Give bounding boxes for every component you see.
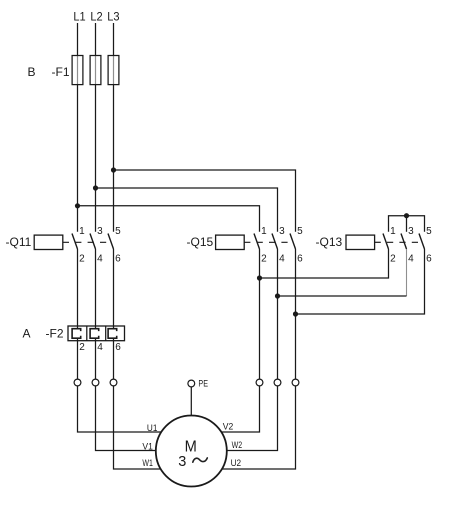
svg-text:2: 2 [390,253,396,264]
wire to motor V2 [221,386,259,432]
contactor Q15 coil box [216,235,245,249]
contactor Q13 coil box [346,235,375,249]
contactor Q15 mechanical linkage [244,241,293,243]
svg-text:B: B [28,65,36,79]
terminal on Q15 pin 6 [292,379,299,386]
overload relay F2 heater element 1 [72,329,81,339]
wire Q11 pin 4 to F2 [95,249,97,329]
svg-text:4: 4 [408,253,414,264]
svg-text:-Q11: -Q11 [6,235,32,249]
wire F2 pin 6 to terminal [113,338,115,379]
wire L2 to fuse F1 [95,23,97,56]
node L1 tap [75,203,80,208]
wire Q15 pin 4 down [277,249,279,379]
wire L3 tap to Q15 pin 5 [114,170,296,232]
svg-text:4: 4 [97,253,103,264]
svg-text:-F1: -F1 [52,65,70,79]
svg-text:PE: PE [198,378,208,388]
contactor Q11 coil box [34,235,63,249]
wire F2 pin 4 to terminal [95,338,97,379]
wire L3 to fuse F1 [113,23,115,56]
svg-text:M: M [185,439,197,456]
wire Q11 pin 6 to F2 [113,249,115,329]
overload relay F2 heater element 3 [108,329,117,339]
node L3 tap [111,167,116,172]
wire fuse F1 pole 3 to Q11 [113,85,115,232]
svg-text:5: 5 [426,226,432,237]
wire to motor W1 [114,386,161,469]
wire to motor U2 [222,386,296,469]
wire L1 tap to Q15 pin 1 [78,206,260,232]
svg-text:L1: L1 [73,10,86,24]
wire star point to Q13 pin 3 [406,216,408,232]
svg-text:6: 6 [115,253,121,264]
svg-text:1: 1 [390,226,396,237]
terminal on W1 feed [110,379,117,386]
svg-text:4: 4 [97,342,103,353]
motor label ~ [193,458,208,462]
wire Q13 pin 4 down [406,249,408,296]
contactor Q15 NO contact pole 1-2 [254,226,267,265]
PE terminal [188,380,195,387]
svg-text:1: 1 [261,226,267,237]
node U2 junction [293,311,298,316]
svg-text:1: 1 [79,226,85,237]
wire L2 tap to Q15 pin 3 [96,188,278,232]
svg-text:A: A [23,327,31,341]
svg-text:2: 2 [79,342,85,353]
svg-text:6: 6 [426,253,432,264]
wire to motor W2 [227,386,278,451]
contactor Q13 NO contact pole 5-6 [419,226,432,265]
fuse F1 pole 1 [72,56,83,85]
wire to motor U1 [78,386,162,432]
wire Q13 pin 6 to U2 net [296,249,425,314]
contactor Q11 NO contact pole 3-4 [90,226,103,265]
svg-text:3: 3 [279,226,285,237]
wire PE to motor [190,387,192,416]
svg-text:U1: U1 [147,423,158,434]
wire Q13 pin 2 to V2 net [260,249,389,278]
motor M1 body [156,416,227,487]
overload relay F2 heater element 2 [90,329,99,339]
svg-text:W1: W1 [142,458,153,469]
wire to motor V1 [96,386,156,451]
wire Q15 pin 2 down [259,249,261,379]
contactor Q11 mechanical linkage [63,241,112,243]
contactor Q11 NO contact pole 5-6 [108,226,121,265]
terminal on V1 feed [92,379,99,386]
svg-text:6: 6 [297,253,303,264]
fuse F1 pole 2 [90,56,101,85]
wire fuse F1 pole 1 to Q11 [77,85,79,232]
wire star bridge over Q13 [389,216,425,232]
svg-text:2: 2 [79,253,85,264]
terminal on Q15 pin 2 [256,379,263,386]
wire Q15 pin 6 down [295,249,297,379]
contactor Q13 NO contact pole 3-4 [401,226,414,265]
contactor Q13 NO contact pole 1-2 [383,226,396,265]
contactor Q13 mechanical linkage [375,241,423,243]
overload relay F2 body [68,326,125,341]
wire L1 to fuse F1 [77,23,79,56]
node star point [404,213,409,218]
wire Q13 pin 4 to W2 net [278,295,407,297]
svg-text:-Q13: -Q13 [316,235,343,249]
svg-text:2: 2 [261,253,267,264]
svg-text:5: 5 [297,226,303,237]
node V2 junction [257,275,262,280]
svg-text:U2: U2 [231,458,242,469]
svg-text:3: 3 [178,454,186,470]
svg-text:4: 4 [279,253,285,264]
svg-text:V1: V1 [142,441,153,452]
svg-text:V2: V2 [223,421,234,432]
terminal on Q15 pin 4 [274,379,281,386]
contactor Q15 NO contact pole 3-4 [272,226,285,265]
svg-text:3: 3 [408,226,414,237]
contactor Q15 NO contact pole 5-6 [290,226,303,265]
svg-text:W2: W2 [232,440,243,451]
node L2 tap [93,185,98,190]
wire F2 pin 2 to terminal [77,338,79,379]
contactor Q11 NO contact pole 1-2 [72,226,85,265]
svg-text:-Q15: -Q15 [187,235,214,249]
wire fuse F1 pole 2 to Q11 [95,85,97,232]
wire Q11 pin 2 to F2 [77,249,79,329]
terminal on U1 feed [74,379,81,386]
node W2 junction [275,293,280,298]
fuse F1 pole 3 [108,56,119,85]
svg-text:3: 3 [97,226,103,237]
svg-text:-F2: -F2 [46,327,64,341]
svg-text:L3: L3 [107,10,120,24]
svg-text:6: 6 [115,342,121,353]
svg-text:L2: L2 [90,10,103,24]
svg-text:5: 5 [115,226,121,237]
